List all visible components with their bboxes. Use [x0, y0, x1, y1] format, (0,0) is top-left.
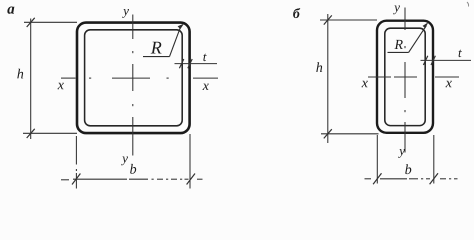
- R arrowhead: [178, 24, 184, 30]
- tick outer: [188, 59, 192, 68]
- b dimension right: [365, 135, 458, 184]
- label h: [17, 69, 23, 79]
- label b bottom right: [405, 164, 411, 174]
- outer profile square tube: [77, 23, 190, 134]
- scan artifact top right: [467, 2, 469, 7]
- h dimension line: [23, 18, 77, 139]
- x axis centerline right: [368, 76, 459, 78]
- b ext right right-diagram: [433, 135, 435, 184]
- b extension line right: [189, 134, 191, 189]
- extension line top: [24, 21, 77, 23]
- tick outer right: [431, 56, 435, 65]
- tick right: [187, 174, 195, 185]
- tick inner: [179, 59, 183, 68]
- R arrowhead right: [423, 22, 429, 28]
- label a (cyrillic): [7, 7, 14, 14]
- b dimension line: [61, 134, 203, 189]
- label t: [203, 54, 206, 61]
- inner profile square tube: [85, 30, 183, 126]
- x axis centerline (horizontal): [61, 77, 218, 79]
- outer profile rect tube: [377, 21, 433, 133]
- label h right: [316, 62, 322, 72]
- t dimension right: [421, 56, 472, 65]
- extension line bottom: [23, 132, 77, 134]
- tick right: [430, 173, 438, 184]
- label b: [130, 164, 136, 174]
- label y bottom right: [398, 149, 405, 158]
- y axis centerline right: [404, 8, 406, 153]
- extension top right: [320, 19, 377, 21]
- label t right: [459, 50, 462, 57]
- tick left: [373, 173, 381, 184]
- label y top: [122, 9, 129, 18]
- extension bottom right: [321, 133, 379, 135]
- h dimension right: [320, 14, 379, 143]
- tick bottom right: [324, 129, 332, 138]
- label y top right: [393, 6, 400, 15]
- R leader line with arrow: [143, 27, 181, 57]
- inner profile rect tube: [385, 28, 425, 125]
- tick top right: [324, 15, 332, 24]
- tick bottom: [27, 129, 35, 138]
- label y bottom: [121, 157, 128, 166]
- label x left (right diagram): [362, 81, 368, 87]
- label R: [151, 42, 162, 54]
- label b (cyrillic): [293, 8, 300, 18]
- label R right: [394, 40, 402, 49]
- y axis centerline (vertical): [132, 15, 134, 156]
- t dimension (wall thickness): [175, 59, 218, 68]
- tick top: [27, 18, 35, 27]
- scan smudge under b line: [90, 188, 176, 190]
- tick left: [72, 174, 80, 185]
- R leader right: [388, 26, 427, 53]
- label x right (right diagram): [446, 81, 452, 87]
- label x right: [203, 84, 209, 90]
- b extension line left: [75, 136, 77, 165]
- tick inner right: [423, 56, 427, 65]
- label x left: [58, 83, 64, 89]
- b ext left right-diagram: [376, 135, 378, 184]
